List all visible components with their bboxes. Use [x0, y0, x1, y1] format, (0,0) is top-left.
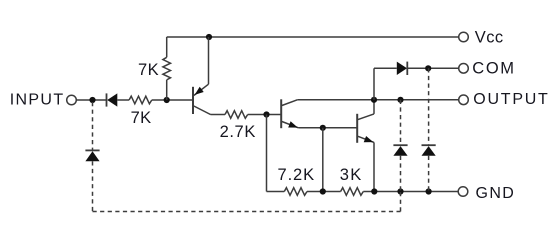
wire vertical above 7K pull-up to Vcc rail — [166, 37, 168, 57]
wire dashed OUTPUT clamp lower segment — [400, 156, 402, 192]
diode D4 clamp at OUTPUT (cathode up) — [393, 145, 407, 156]
wire Q2 emitter to Q3 base — [298, 127, 357, 129]
wire COM line right segment — [407, 67, 458, 69]
resistor R 2.7K — [225, 111, 248, 119]
wire resistor 7K to transistor Q1 base — [152, 99, 193, 101]
node GND rail at Q3 emitter — [371, 188, 377, 194]
svg-text:INPUT: INPUT — [10, 92, 65, 109]
wire GND rail right segment — [363, 191, 458, 193]
wire dashed up to GND rail — [400, 192, 402, 212]
node GND rail at Q3 base pulldown — [320, 188, 326, 194]
wire diode to resistor 7K — [117, 99, 129, 101]
node GND rail at dashed branch 1 — [397, 188, 403, 194]
node GND rail at dashed branch 2 — [426, 188, 432, 194]
resistor R 7K (series, horizontal) — [129, 96, 152, 104]
node OUTPUT line junction (dashed branch) — [397, 97, 403, 103]
wire dashed OUTPUT clamp upper segment — [400, 100, 402, 145]
wire GND rail left segment — [267, 191, 285, 193]
svg-text:7.2K: 7.2K — [278, 166, 316, 184]
wire Q2 collector / OUTPUT line — [297, 99, 458, 101]
wire Q3 collector up to OUTPUT line — [373, 100, 375, 114]
svg-text:Vcc: Vcc — [475, 29, 504, 47]
wire GND rail between resistors — [307, 191, 341, 193]
svg-text:7K: 7K — [138, 61, 159, 79]
resistor R 3K — [341, 188, 364, 196]
svg-text:2.7K: 2.7K — [220, 123, 256, 141]
wire dashed from input junction down — [92, 102, 94, 150]
node OUTPUT line junction at Q3 collector — [371, 97, 377, 103]
diode D5 clamp at COM (cathode up) — [422, 145, 436, 156]
transistor Q3 NPN — [357, 114, 374, 143]
diode D2 series COM (cathode right) — [397, 62, 408, 75]
wire dashed COM clamp upper segment — [428, 68, 430, 145]
wire resistor 2.7K to Q2 base — [248, 114, 282, 116]
node Q2 base junction — [263, 111, 269, 117]
transistor Q1 PNP — [193, 37, 211, 115]
wire dashed below input clamp diode — [92, 161, 94, 211]
wire vertical below 7K pull-up — [166, 80, 168, 100]
terminal Vcc — [459, 32, 469, 42]
terminal OUTPUT — [459, 95, 469, 105]
diode D3 clamp at input (cathode up) — [85, 150, 99, 161]
terminal COM — [459, 64, 469, 74]
transistor Q2 NPN — [281, 99, 298, 128]
wire Q3 base node down to GND rail — [322, 128, 324, 192]
wire input line from INPUT terminal to diode — [76, 99, 106, 101]
wire Q1 collector to resistor 2.7K — [211, 114, 226, 116]
svg-text:COM: COM — [472, 60, 515, 78]
wire Vcc top rail — [167, 36, 459, 38]
wire dashed COM clamp lower segment — [428, 156, 430, 192]
node Q3 base junction — [320, 125, 326, 131]
resistor R 7.2K — [284, 188, 307, 196]
wire dashed bottom horizontal — [93, 211, 401, 213]
diode D1 series input (cathode left) — [107, 93, 118, 106]
wire COM line left segment — [374, 67, 397, 69]
wire Q2 base node down to GND rail — [266, 115, 268, 192]
node input junction (dashed branch) — [89, 97, 95, 103]
svg-text:OUTPUT: OUTPUT — [473, 91, 549, 108]
wire Q3 emitter down to GND rail — [373, 142, 375, 191]
svg-text:GND: GND — [476, 185, 516, 202]
wire vertical from OUTPUT node up to COM diode line — [373, 68, 375, 100]
svg-text:7K: 7K — [131, 109, 152, 127]
resistor R 7K (pull-up, vertical) — [163, 57, 171, 80]
node COM line junction (dashed branch) — [425, 65, 431, 71]
svg-text:3K: 3K — [340, 166, 363, 184]
terminal GND — [458, 187, 468, 197]
node Vcc rail junction (Q1 emitter) — [206, 34, 212, 40]
terminal INPUT — [67, 95, 77, 105]
node base junction of Q1 — [164, 97, 170, 103]
